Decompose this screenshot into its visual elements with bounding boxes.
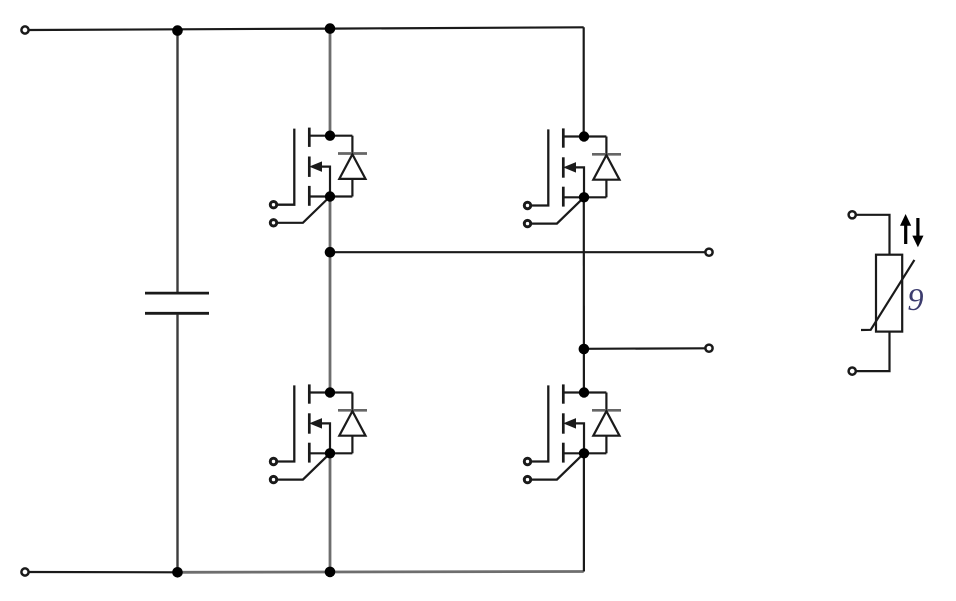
- node phase B junction: [579, 344, 590, 355]
- transistor Q2 top-right MOSFET: [524, 128, 621, 226]
- wire capacitor top: [176, 31, 178, 292]
- thermistor top terminal: [849, 211, 856, 218]
- capacitor C1 bottom plate: [145, 312, 209, 315]
- node DC+ capacitor junction: [172, 25, 183, 36]
- node phase A junction: [325, 247, 336, 258]
- node DC+ left leg junction: [325, 23, 336, 34]
- thermistor RT body: [876, 255, 902, 332]
- wire DC- bottom bus middle: [178, 570, 584, 574]
- output terminal B: [705, 345, 712, 352]
- node DC- left leg junction: [325, 567, 336, 578]
- transistor Q4 bottom-right MOSFET: [524, 384, 621, 482]
- wire capacitor bottom: [176, 315, 178, 573]
- input terminal minus: [21, 568, 28, 575]
- wire thermistor bottom: [856, 332, 889, 372]
- node DC- capacitor junction: [172, 567, 183, 578]
- wire right rail top: [583, 27, 585, 136]
- thermistor diagonal stroke: [861, 260, 914, 330]
- thermistor bottom terminal: [849, 368, 856, 375]
- output terminal A: [705, 249, 712, 256]
- wire left rail top: [329, 29, 332, 136]
- wire left rail middle: [329, 197, 332, 393]
- wire right rail bottom: [583, 453, 585, 571]
- arrow down heat flow: [912, 218, 923, 247]
- wire phase output A: [330, 251, 705, 253]
- wire DC- bottom bus left: [29, 571, 177, 573]
- wire left rail bottom: [329, 453, 332, 572]
- arrow up heat flow: [900, 214, 911, 244]
- wire DC+ top bus: [29, 27, 583, 30]
- input terminal plus: [21, 26, 28, 33]
- wire thermistor top: [856, 215, 889, 255]
- transistor Q1 top-left MOSFET: [270, 128, 367, 226]
- wire phase output B: [584, 347, 705, 350]
- transistor Q3 bottom-left MOSFET: [270, 384, 367, 482]
- capacitor C1 top plate: [145, 292, 209, 295]
- wire right rail middle: [583, 197, 585, 392]
- svg-text:9: 9: [908, 281, 924, 317]
